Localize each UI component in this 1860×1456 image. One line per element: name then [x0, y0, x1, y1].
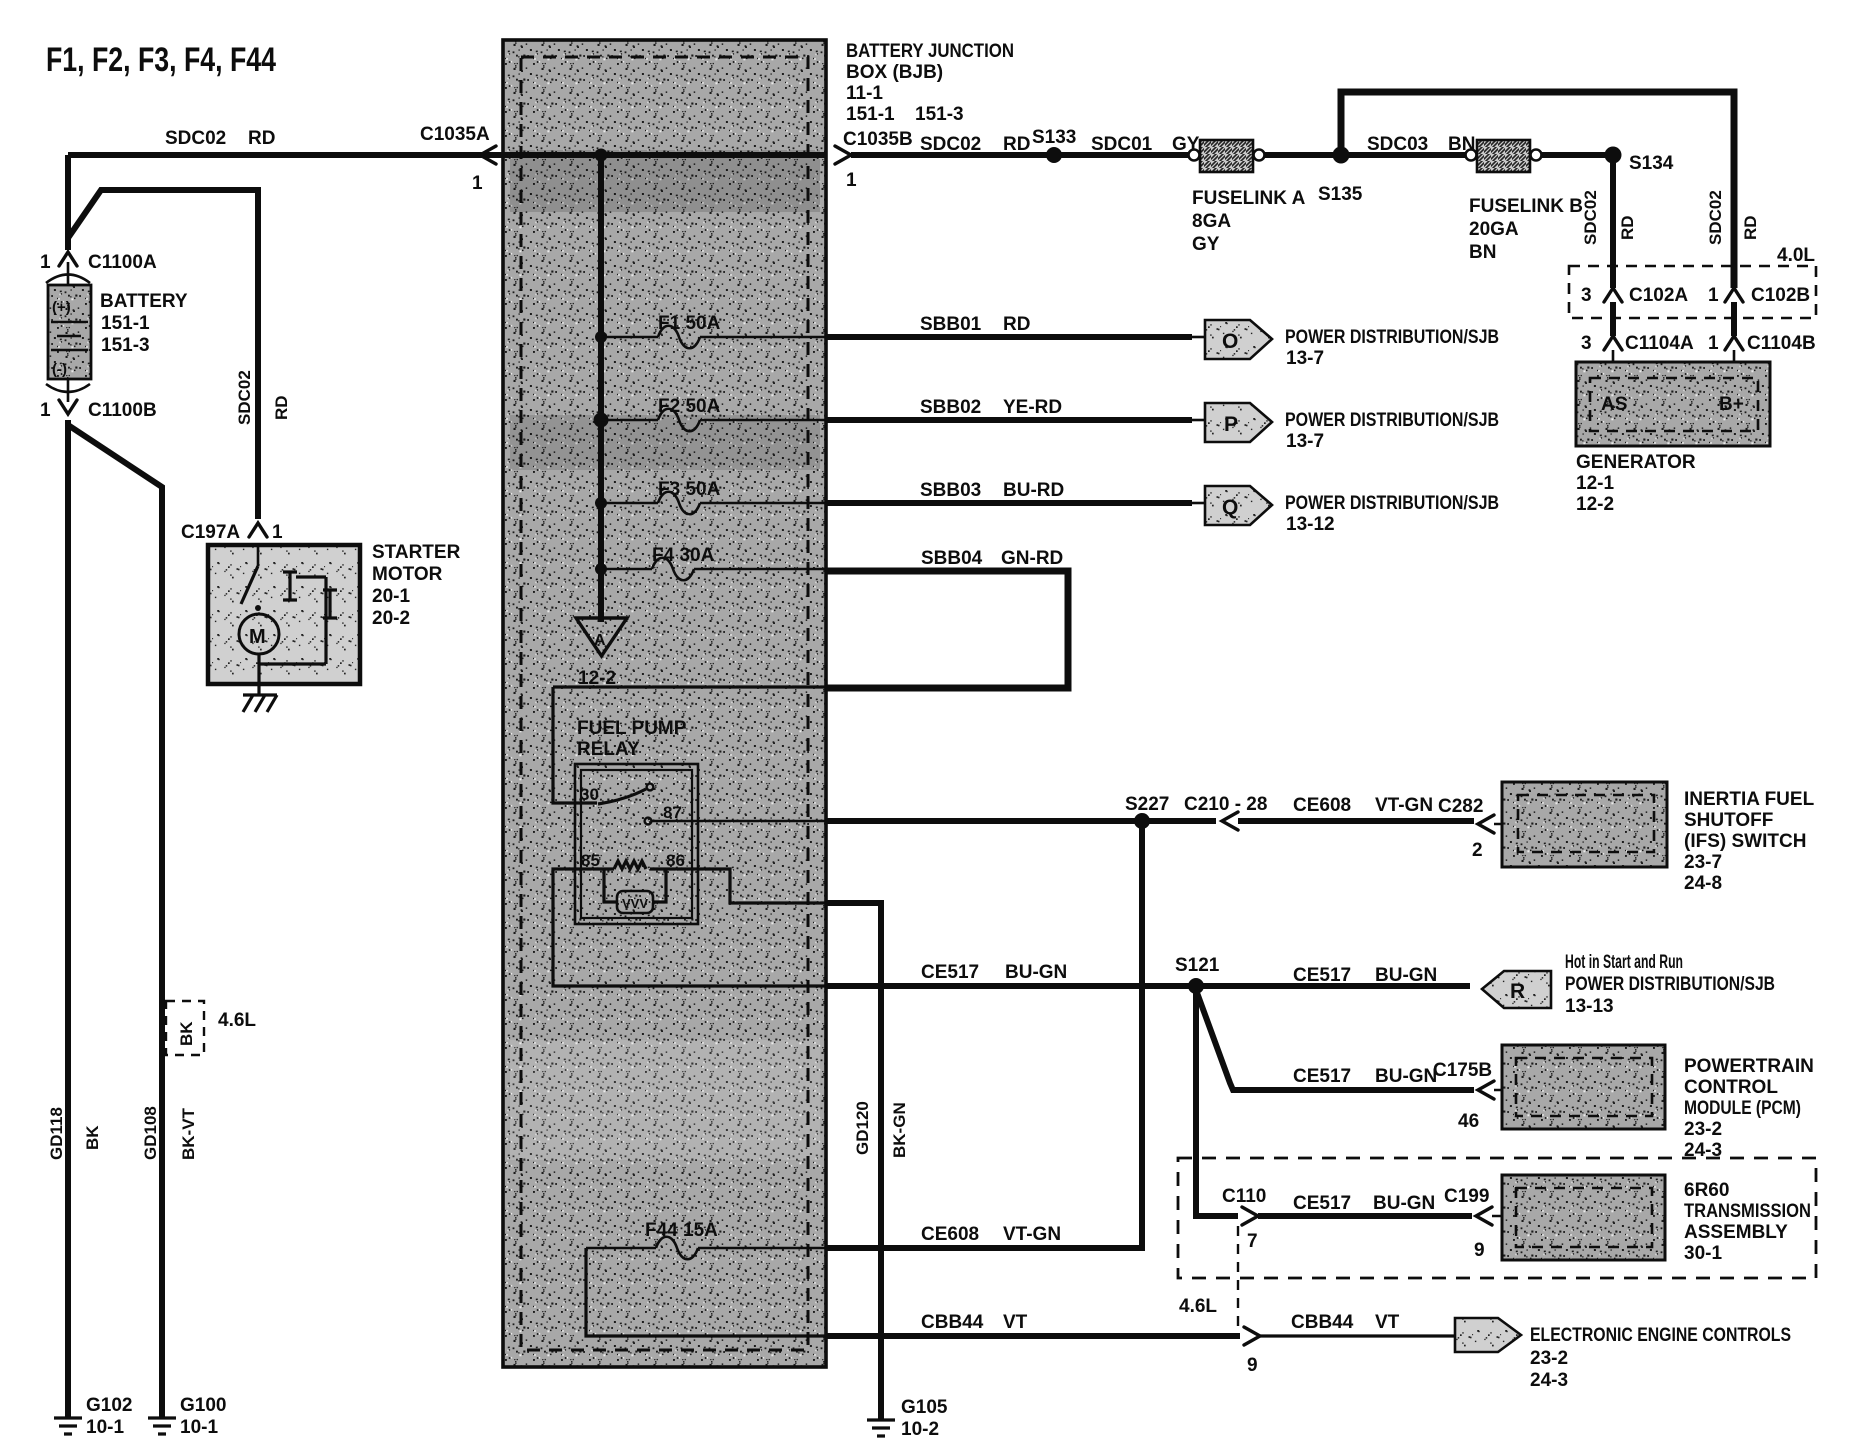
svg-text:GD118: GD118: [47, 1107, 66, 1160]
S135 splice + jumper: [1318, 92, 1734, 288]
svg-text:MOTOR: MOTOR: [372, 564, 443, 585]
svg-text:FUSELINK B: FUSELINK B: [1469, 196, 1583, 217]
ground G102: [54, 1395, 132, 1438]
svg-text:CE517: CE517: [921, 962, 979, 983]
svg-text:VT-GN: VT-GN: [1003, 1224, 1061, 1245]
connector C1035B: [835, 129, 913, 191]
svg-text:VT: VT: [1003, 1312, 1028, 1333]
svg-text:YE-RD: YE-RD: [1003, 397, 1062, 418]
generator: [1576, 362, 1770, 446]
svg-text:11-1: 11-1: [846, 83, 883, 104]
svg-text:10-1: 10-1: [180, 1417, 218, 1438]
svg-text:GENERATOR: GENERATOR: [1576, 452, 1696, 473]
svg-text:SDC02: SDC02: [1581, 190, 1600, 245]
svg-text:4.0L: 4.0L: [1777, 245, 1815, 266]
svg-text:20-1: 20-1: [372, 586, 410, 607]
wire CBB44 VT to electronic engine controls: [1260, 1312, 1455, 1336]
fuel pump relay: [575, 718, 826, 924]
connector C110 pin 7: [1222, 1186, 1266, 1252]
svg-text:F2 50A: F2 50A: [658, 396, 721, 417]
svg-text:R: R: [1510, 980, 1525, 1003]
svg-text:SHUTOFF: SHUTOFF: [1684, 810, 1773, 831]
svg-text:12-2: 12-2: [1576, 494, 1614, 515]
fuse F1 50A: [595, 313, 826, 348]
svg-text:RD: RD: [1618, 215, 1637, 240]
svg-text:RD: RD: [248, 128, 275, 149]
svg-text:BU-RD: BU-RD: [1003, 480, 1064, 501]
fuselink B: [1466, 140, 1584, 263]
svg-text:12-1: 12-1: [1576, 473, 1614, 494]
svg-text:C210 - 28: C210 - 28: [1184, 794, 1267, 815]
connector C1035A: [420, 124, 496, 194]
svg-text:Q: Q: [1222, 496, 1238, 519]
svg-text:CBB44: CBB44: [921, 1312, 984, 1333]
svg-text:G100: G100: [180, 1395, 226, 1416]
4.6L transmission dashed box: [1178, 1158, 1816, 1278]
svg-text:F1 50A: F1 50A: [658, 313, 721, 334]
splice S121: [1175, 955, 1220, 994]
svg-text:C102A: C102A: [1629, 285, 1688, 306]
svg-text:SDC02: SDC02: [165, 128, 226, 149]
svg-text:23-2: 23-2: [1684, 1119, 1722, 1140]
svg-text:C175B: C175B: [1433, 1060, 1492, 1081]
svg-text:23-2: 23-2: [1530, 1348, 1568, 1369]
svg-text:GY: GY: [1192, 234, 1220, 255]
svg-text:20-2: 20-2: [372, 608, 410, 629]
svg-text:3: 3: [1581, 285, 1592, 306]
svg-text:24-8: 24-8: [1684, 873, 1722, 894]
svg-text:RD: RD: [1003, 314, 1030, 335]
svg-text:9: 9: [1474, 1240, 1485, 1261]
svg-text:P: P: [1224, 413, 1238, 436]
wire CE608 VT-GN to C282: [1238, 795, 1474, 821]
connector C1100B: [40, 384, 157, 421]
svg-text:C110: C110: [1222, 1186, 1266, 1207]
svg-text:8GA: 8GA: [1192, 211, 1231, 232]
svg-text:BOX (BJB): BOX (BJB): [846, 62, 943, 83]
svg-text:FUSELINK A: FUSELINK A: [1192, 188, 1306, 209]
svg-text:13-7: 13-7: [1286, 348, 1324, 369]
CE608 F44 riser: [826, 821, 1142, 1248]
svg-text:1: 1: [1708, 333, 1719, 354]
svg-text:F44 15A: F44 15A: [645, 1220, 718, 1241]
svg-text:Hot in Start and Run: Hot in Start and Run: [1565, 952, 1683, 973]
svg-text:CBB44: CBB44: [1291, 1312, 1354, 1333]
svg-text:SBB03: SBB03: [920, 480, 981, 501]
svg-text:151-3: 151-3: [915, 104, 964, 125]
battery: [48, 262, 91, 402]
svg-text:1: 1: [272, 522, 283, 543]
svg-text:151-1: 151-1: [101, 313, 150, 334]
SBB02 output row P: [826, 397, 1499, 452]
SBB01 output row O: [826, 314, 1499, 369]
wire: battery drop: [65, 155, 71, 250]
svg-text:CE608: CE608: [1293, 795, 1351, 816]
svg-text:C1035B: C1035B: [843, 129, 913, 150]
S133 splice: [1032, 127, 1076, 163]
svg-text:FUEL PUMP: FUEL PUMP: [577, 718, 687, 739]
svg-text:86: 86: [666, 851, 685, 870]
svg-text:20GA: 20GA: [1469, 219, 1519, 240]
svg-text:C197A: C197A: [181, 522, 240, 543]
svg-text:SBB01: SBB01: [920, 314, 982, 335]
svg-text:C1104A: C1104A: [1625, 333, 1694, 354]
svg-text:G102: G102: [86, 1395, 132, 1416]
connector C175B pin 46: [1433, 1060, 1520, 1132]
wire: BJB main bus: [598, 155, 604, 569]
svg-text:INERTIA FUEL: INERTIA FUEL: [1684, 789, 1815, 810]
wire CBB44 VT from F44: [826, 1312, 1240, 1336]
SBB03 output row Q: [826, 480, 1499, 535]
svg-text:F3 50A: F3 50A: [658, 479, 721, 500]
off-page flag: electronic engine controls 23-2 24-3: [1455, 1318, 1791, 1391]
off-page flag R: power distribution/SJB 13-13: [1482, 952, 1775, 1017]
svg-text:POWER DISTRIBUTION/SJB: POWER DISTRIBUTION/SJB: [1285, 327, 1499, 348]
svg-text:13-12: 13-12: [1286, 514, 1335, 535]
splice S227: [1125, 794, 1169, 829]
connector C199 pin 9: [1444, 1186, 1518, 1261]
svg-text:CE608: CE608: [921, 1224, 979, 1245]
SBB04 loop: [826, 548, 1068, 688]
wire GD118: [65, 420, 71, 1418]
svg-text:BK: BK: [83, 1125, 102, 1150]
svg-text:TRANSMISSION: TRANSMISSION: [1684, 1201, 1811, 1222]
ground G100: [148, 1395, 226, 1438]
svg-text:G105: G105: [901, 1397, 948, 1418]
svg-text:13-7: 13-7: [1286, 431, 1324, 452]
connector C282 pin 2: [1438, 796, 1520, 861]
svg-text:BK-VT: BK-VT: [179, 1107, 198, 1160]
svg-text:1: 1: [472, 173, 483, 194]
svg-text:ASSEMBLY: ASSEMBLY: [1684, 1222, 1788, 1243]
svg-text:BK-GN: BK-GN: [890, 1102, 909, 1158]
svg-text:CONTROL: CONTROL: [1684, 1077, 1778, 1098]
C1104 connectors: [1581, 302, 1816, 385]
wire CE517 BU-GN S121 to PCM: [1196, 990, 1474, 1090]
svg-text:151-1: 151-1: [846, 104, 895, 125]
svg-text:RD: RD: [1003, 134, 1030, 155]
svg-text:CE517: CE517: [1293, 1193, 1351, 1214]
wire: branch to starter motor: [68, 190, 258, 519]
svg-text:ELECTRONIC ENGINE CONTROLS: ELECTRONIC ENGINE CONTROLS: [1530, 1325, 1791, 1346]
svg-text:7: 7: [1247, 1231, 1258, 1252]
GD120 ground wire: [826, 903, 948, 1440]
wire: battery to BJB top feed: [68, 152, 826, 158]
page connector triangle A 12-2: [576, 569, 627, 689]
svg-text:GD120: GD120: [853, 1101, 872, 1155]
svg-text:B+: B+: [1719, 394, 1744, 415]
svg-text:6R60: 6R60: [1684, 1180, 1729, 1201]
svg-text:10-2: 10-2: [901, 1419, 939, 1440]
svg-text:VT: VT: [1375, 1312, 1400, 1333]
svg-text:85: 85: [581, 851, 600, 870]
svg-text:AS: AS: [1601, 394, 1627, 415]
connector C197A: [181, 522, 283, 543]
svg-text:4.6L: 4.6L: [218, 1010, 256, 1031]
fuse F2 50A: [594, 396, 827, 431]
fuse F3 50A: [595, 479, 826, 514]
fuselink A: [1189, 140, 1306, 255]
svg-text:BN: BN: [1469, 242, 1496, 263]
svg-text:RD: RD: [272, 395, 291, 420]
svg-text:1: 1: [1708, 285, 1719, 306]
svg-text:POWER DISTRIBUTION/SJB: POWER DISTRIBUTION/SJB: [1565, 974, 1775, 995]
svg-text:S134: S134: [1629, 153, 1674, 174]
svg-text:9: 9: [1247, 1355, 1258, 1376]
svg-text:C1100A: C1100A: [88, 252, 157, 273]
wire CE517 BU-GN from relay coil 85: [826, 962, 1470, 986]
svg-text:POWER DISTRIBUTION/SJB: POWER DISTRIBUTION/SJB: [1285, 493, 1499, 514]
svg-text:S227: S227: [1125, 794, 1169, 815]
wire GD108: [68, 425, 162, 1418]
node: main bus junction: [595, 149, 608, 162]
svg-text:RD: RD: [1741, 215, 1760, 240]
connector C210 pin 28: [1184, 794, 1267, 830]
svg-text:F1, F2, F3, F4, F44: F1, F2, F3, F4, F44: [46, 41, 276, 79]
svg-text:CE517: CE517: [1293, 1066, 1351, 1087]
svg-text:3: 3: [1581, 333, 1592, 354]
svg-text:CE517: CE517: [1293, 965, 1351, 986]
battery junction box (BJB): [503, 40, 826, 1367]
svg-text:C282: C282: [1438, 796, 1483, 817]
svg-text:30: 30: [580, 785, 599, 804]
svg-text:SDC01: SDC01: [1091, 134, 1153, 155]
svg-text:87: 87: [663, 803, 682, 822]
svg-text:1: 1: [40, 252, 51, 273]
fuse F4 30A: [595, 545, 826, 580]
starter motor: [208, 545, 360, 684]
svg-text:30-1: 30-1: [1684, 1243, 1722, 1264]
svg-text:SBB02: SBB02: [920, 397, 981, 418]
svg-text:O: O: [1222, 330, 1238, 353]
fuel pump relay feed 12-2 wire: [553, 687, 826, 803]
fuse F44 15A: [586, 1220, 826, 1336]
6R60 transmission assembly: [1502, 1175, 1665, 1260]
svg-text:S135: S135: [1318, 184, 1363, 205]
svg-text:SBB04: SBB04: [921, 548, 983, 569]
svg-text:BK: BK: [177, 1021, 196, 1046]
svg-text:POWER DISTRIBUTION/SJB: POWER DISTRIBUTION/SJB: [1285, 410, 1499, 431]
svg-text:SDC02: SDC02: [235, 370, 254, 425]
svg-text:C102B: C102B: [1751, 285, 1810, 306]
svg-text:BU-GN: BU-GN: [1373, 1193, 1435, 1214]
svg-text:1: 1: [846, 170, 857, 191]
svg-text:SDC02: SDC02: [920, 134, 981, 155]
svg-text:(-): (-): [52, 361, 67, 378]
svg-text:10-1: 10-1: [86, 1417, 124, 1438]
4.6L dashed BK box: [166, 1001, 256, 1055]
svg-text:S133: S133: [1032, 127, 1076, 148]
connector C110 pin 9: [1244, 1327, 1260, 1376]
svg-text:13-13: 13-13: [1565, 996, 1614, 1017]
svg-text:VVV: VVV: [622, 896, 648, 911]
svg-text:BATTERY JUNCTION: BATTERY JUNCTION: [846, 41, 1014, 62]
svg-text:151-3: 151-3: [101, 335, 150, 356]
svg-text:C1035A: C1035A: [420, 124, 490, 145]
powertrain control module: [1502, 1045, 1665, 1129]
svg-text:BU-GN: BU-GN: [1375, 1066, 1437, 1087]
svg-text:VT-GN: VT-GN: [1375, 795, 1433, 816]
svg-text:S121: S121: [1175, 955, 1220, 976]
relay coil left wire to CE517: [553, 869, 826, 986]
svg-text:46: 46: [1458, 1111, 1479, 1132]
wire CE517 BU-GN to C199: [1258, 1193, 1472, 1216]
svg-text:23-7: 23-7: [1684, 852, 1722, 873]
svg-text:(IFS) SWITCH: (IFS) SWITCH: [1684, 831, 1806, 852]
svg-text:GN-RD: GN-RD: [1001, 548, 1063, 569]
inertia fuel shutoff switch: [1502, 782, 1667, 867]
svg-text:GD108: GD108: [141, 1106, 160, 1160]
chassis ground under starter: [243, 684, 277, 712]
svg-text:C199: C199: [1444, 1186, 1489, 1207]
svg-text:BU-GN: BU-GN: [1375, 965, 1437, 986]
svg-text:SDC03: SDC03: [1367, 134, 1428, 155]
relay coil right wire to GD120: [698, 869, 826, 903]
wire: S-wire C1035B to S134: [851, 152, 1613, 158]
svg-text:C1100B: C1100B: [88, 400, 157, 421]
svg-text:2: 2: [1472, 840, 1483, 861]
svg-text:M: M: [249, 626, 266, 648]
svg-text:BATTERY: BATTERY: [100, 291, 188, 312]
wire CE608 relay 87 output: [826, 818, 1216, 824]
svg-text:F4 30A: F4 30A: [652, 545, 715, 566]
svg-text:STARTER: STARTER: [372, 542, 461, 563]
4.0L dashed box with C102 connectors: [1569, 266, 1816, 318]
svg-text:BU-GN: BU-GN: [1005, 962, 1067, 983]
svg-text:4.6L: 4.6L: [1179, 1296, 1217, 1317]
svg-text:24-3: 24-3: [1530, 1370, 1568, 1391]
connector C1100A: [40, 252, 157, 283]
svg-text:RELAY: RELAY: [577, 739, 640, 760]
S134 splice: [1605, 147, 1674, 289]
svg-text:1: 1: [40, 400, 51, 421]
svg-text:(+): (+): [52, 299, 71, 316]
svg-text:POWERTRAIN: POWERTRAIN: [1684, 1056, 1814, 1077]
svg-text:C1104B: C1104B: [1747, 333, 1816, 354]
svg-text:SDC02: SDC02: [1706, 190, 1725, 245]
svg-text:MODULE (PCM): MODULE (PCM): [1684, 1098, 1801, 1119]
svg-text:A: A: [594, 632, 606, 649]
wire S121 down to C110: [1196, 986, 1238, 1216]
